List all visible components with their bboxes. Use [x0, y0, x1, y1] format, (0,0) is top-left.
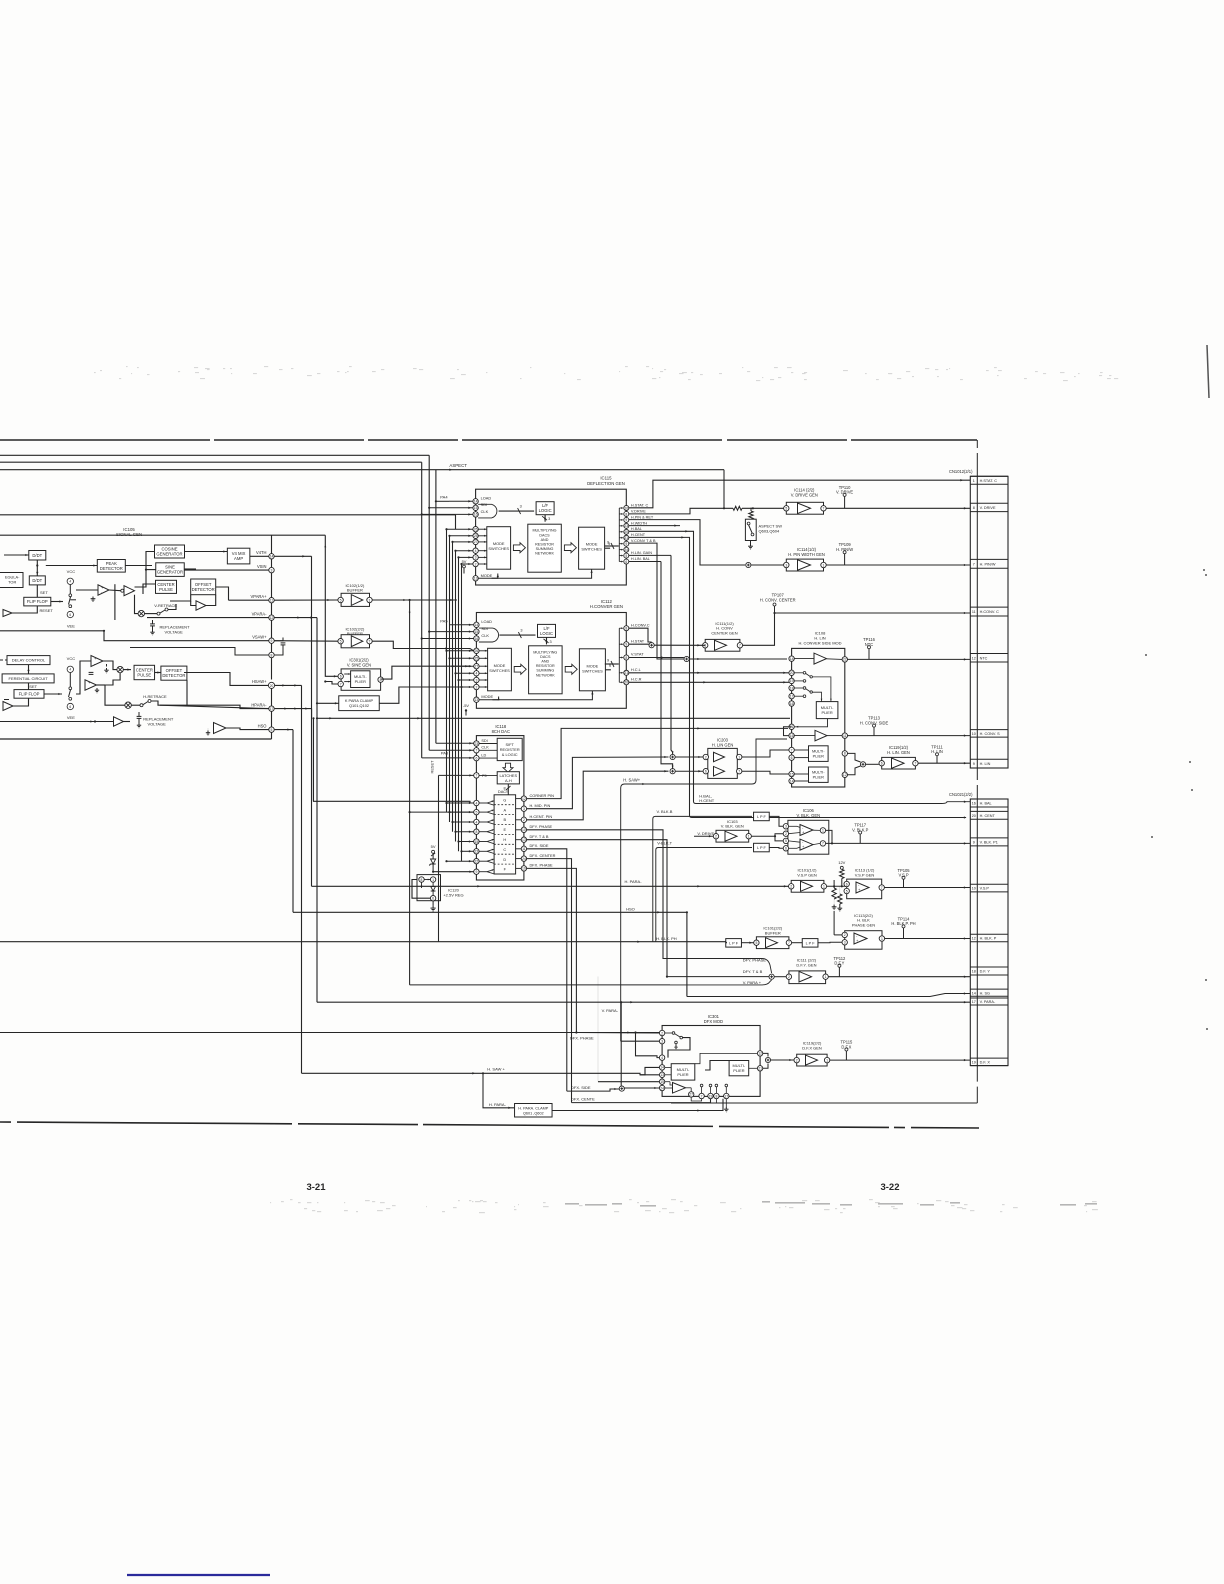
svg-text:VCC: VCC	[67, 569, 76, 574]
svg-text:C: C	[503, 847, 506, 852]
svg-text:2: 2	[788, 975, 790, 979]
svg-text:4: 4	[69, 580, 71, 584]
svg-text:8: 8	[625, 627, 627, 631]
svg-text:V4TH: V4TH	[256, 550, 267, 555]
block SINE GENERATOR	[156, 563, 185, 577]
svg-text:DACS: DACS	[540, 655, 551, 659]
svg-text:15: 15	[475, 840, 479, 844]
IC112 right pins H.CONV.C..H.C.R	[624, 626, 629, 631]
svg-text:4: 4	[475, 672, 477, 676]
svg-text:H.STAT: H.STAT	[631, 638, 645, 643]
svg-text:13: 13	[522, 838, 526, 842]
svg-text:5: 5	[846, 889, 848, 893]
svg-text:H. SAW+: H. SAW+	[623, 778, 640, 783]
svg-text:DETECTOR: DETECTOR	[192, 587, 215, 592]
svg-text:7: 7	[881, 886, 883, 890]
svg-text:RESISTOR: RESISTOR	[535, 543, 554, 547]
svg-text:5: 5	[755, 941, 757, 945]
svg-text:7: 7	[973, 562, 975, 566]
svg-text:1: 1	[825, 975, 827, 979]
svg-text:19: 19	[972, 1060, 976, 1064]
block CENTER PULSE H	[134, 665, 155, 679]
svg-text:6: 6	[705, 770, 707, 774]
svg-text:DFX. PHASE: DFX. PHASE	[570, 1036, 594, 1041]
svg-text:25: 25	[475, 657, 479, 661]
svg-text:GENERATOR: GENERATOR	[157, 570, 183, 575]
svg-text:1: 1	[738, 755, 740, 759]
svg-text:MODE: MODE	[481, 694, 493, 699]
svg-text:SDI: SDI	[481, 739, 487, 743]
summing node V.STAT	[684, 656, 689, 661]
svg-text:6: 6	[432, 897, 434, 901]
svg-text:BUFFER: BUFFER	[347, 588, 363, 593]
svg-text:RESET: RESET	[40, 608, 54, 613]
block MULTIPLIER IC301 right	[729, 1061, 749, 1076]
svg-text:Q603,Q604: Q603,Q604	[759, 529, 780, 534]
svg-text:3: 3	[475, 556, 477, 560]
svg-text:HSAW+: HSAW+	[252, 679, 267, 684]
svg-text:LOGIC: LOGIC	[539, 508, 552, 513]
svg-text:14: 14	[790, 779, 794, 783]
svg-text:L P F: L P F	[757, 815, 767, 819]
svg-text:12: 12	[972, 656, 976, 660]
svg-text:7: 7	[823, 507, 825, 511]
svg-text:A-H: A-H	[505, 778, 512, 783]
svg-text:22: 22	[843, 658, 847, 662]
svg-text:11: 11	[522, 847, 526, 851]
svg-text:PA4: PA4	[440, 495, 448, 500]
svg-text:11: 11	[270, 599, 274, 603]
svg-text:H. BLK. P: H. BLK. P	[980, 937, 997, 941]
wire long y718	[317, 717, 790, 719]
block LPF H.BLK 1	[726, 939, 742, 948]
svg-text:V. PARA +: V. PARA +	[743, 980, 762, 985]
wire V.PARA+	[410, 984, 670, 986]
svg-text:E: E	[503, 827, 506, 832]
svg-text:20: 20	[790, 671, 794, 675]
block LPF V.BLK.B	[754, 812, 770, 821]
svg-text:9: 9	[475, 870, 477, 874]
svg-text:AND: AND	[541, 660, 549, 664]
svg-text:D.F. X: D.F. X	[980, 1060, 991, 1064]
svg-text:21: 21	[624, 536, 628, 540]
svg-text:12: 12	[972, 937, 976, 941]
svg-text:7: 7	[788, 941, 790, 945]
svg-text:8: 8	[625, 512, 627, 516]
svg-text:7: 7	[369, 640, 371, 644]
svg-text:16: 16	[475, 637, 479, 641]
svg-text:CLK: CLK	[481, 509, 489, 514]
svg-text:H. LIN: H. LIN	[980, 762, 991, 766]
summing node D.F.Y	[769, 974, 774, 979]
wire mode bus verticals	[446, 529, 448, 812]
page edge artifact	[1207, 345, 1209, 398]
svg-text:CORNER PIN: CORNER PIN	[530, 793, 555, 798]
svg-text:7: 7	[822, 842, 824, 846]
wire HSO to H.SG	[293, 911, 687, 913]
svg-text:6: 6	[69, 613, 71, 617]
svg-text:PHASE GEN: PHASE GEN	[852, 922, 875, 927]
IC118 DAC output pins CORNER PIN..DFX.PHASE	[516, 798, 522, 800]
svg-text:L P F: L P F	[757, 846, 767, 850]
svg-text:H.BAL: H.BAL	[631, 527, 642, 531]
block IC112 H.CONVER GEN	[476, 613, 626, 709]
block OFFSET DETECTOR V	[191, 579, 216, 595]
svg-text:PULSE: PULSE	[137, 673, 151, 678]
svg-text:HSO: HSO	[258, 723, 267, 728]
block V4 MIX AMP	[227, 548, 250, 564]
svg-text:+2.5V REG: +2.5V REG	[443, 893, 463, 898]
block MULTIPLIER IC108 mid	[809, 746, 829, 762]
svg-text:6: 6	[69, 705, 71, 709]
svg-text:H. CONV. CENTER: H. CONV. CENTER	[760, 597, 796, 602]
svg-text:17: 17	[972, 1000, 976, 1004]
svg-text:LOAD: LOAD	[481, 496, 492, 501]
block MODE SWITCHES in IC112	[488, 648, 512, 691]
svg-text:MULTIPLYING: MULTIPLYING	[532, 529, 556, 533]
svg-text:LD: LD	[481, 754, 486, 758]
svg-text:A: A	[503, 807, 506, 812]
svg-text:4: 4	[69, 668, 71, 672]
block MULTIPLIER IC301 left	[671, 1064, 695, 1080]
svg-text:1: 1	[826, 1058, 828, 1062]
svg-text:3: 3	[661, 1040, 663, 1044]
svg-text:VCC: VCC	[67, 656, 76, 661]
block MULTIPLIER IC108 low	[809, 767, 829, 782]
svg-text:H. BLK. PH: H. BLK. PH	[656, 936, 677, 941]
svg-text:D/DT: D/DT	[32, 553, 42, 558]
svg-text:FLIP FLOP: FLIP FLOP	[27, 599, 48, 604]
svg-text:9: 9	[973, 762, 975, 766]
svg-text:16: 16	[972, 802, 976, 806]
svg-text:VEE: VEE	[67, 623, 75, 628]
svg-text:V. PARA-: V. PARA-	[980, 1000, 996, 1004]
svg-text:12: 12	[758, 1052, 762, 1056]
svg-text:2: 2	[475, 562, 477, 566]
svg-text:8: 8	[973, 506, 975, 510]
svg-text:H. CENT: H. CENT	[980, 814, 996, 818]
svg-text:14: 14	[790, 657, 794, 661]
svg-text:V-BLK.T: V-BLK.T	[657, 840, 672, 845]
svg-text:DFX. SIDE: DFX. SIDE	[571, 1085, 591, 1090]
ground IC120	[432, 906, 434, 908]
op-amp H1	[91, 656, 103, 667]
svg-text:D/DT: D/DT	[32, 578, 42, 583]
block COSINE GENERATOR	[155, 545, 185, 558]
svg-text:H.C.L: H.C.L	[631, 667, 642, 672]
svg-text:PLIER: PLIER	[813, 754, 824, 759]
svg-text:CLK: CLK	[481, 633, 489, 638]
block PEAK DETECTOR	[97, 560, 125, 573]
block CENTER PULSE V	[156, 580, 177, 593]
block SHIFT REGISTER & LOGIC	[497, 738, 522, 760]
summing nodes IC203 inputs	[670, 754, 675, 759]
svg-text:SET: SET	[29, 684, 37, 689]
svg-text:V. DRIVE GEN: V. DRIVE GEN	[791, 493, 818, 498]
block L/F LOGIC of IC112	[538, 624, 556, 637]
block MODE SWITCHES in IC115	[487, 527, 511, 570]
svg-text:5: 5	[785, 507, 787, 511]
svg-text:5: 5	[271, 728, 273, 732]
svg-text:H: H	[503, 837, 506, 842]
svg-text:24: 24	[660, 1086, 664, 1090]
svg-text:SET: SET	[40, 590, 48, 595]
svg-text:12V: 12V	[838, 860, 845, 865]
svg-text:V. BLK.B: V. BLK.B	[657, 809, 673, 814]
svg-text:PULSE: PULSE	[159, 587, 173, 592]
svg-text:20: 20	[270, 684, 274, 688]
svg-text:9: 9	[625, 518, 627, 522]
svg-text:5V: 5V	[431, 844, 436, 849]
svg-text:P5: P5	[482, 774, 487, 778]
svg-text:4: 4	[475, 549, 477, 553]
block LPF V.BLK.T	[754, 843, 770, 852]
svg-text:PA5: PA5	[440, 619, 448, 624]
svg-text:8: 8	[380, 678, 382, 682]
summing node D.F.X	[765, 1057, 770, 1062]
svg-text:10: 10	[972, 887, 976, 891]
svg-text:CN1012(2/1): CN1012(2/1)	[949, 469, 973, 474]
wire H.STAT.C	[629, 480, 970, 508]
svg-text:SIGNAL GEN: SIGNAL GEN	[116, 532, 142, 537]
svg-text:DFY. PHASE: DFY. PHASE	[530, 824, 553, 829]
svg-text:4: 4	[475, 820, 477, 824]
svg-text:MULTIPLYING: MULTIPLYING	[533, 650, 557, 654]
svg-text:PA3: PA3	[441, 751, 449, 756]
svg-text:3: 3	[550, 640, 552, 644]
svg-text:CENTER GEN: CENTER GEN	[711, 630, 737, 635]
bus wire top 2	[0, 461, 422, 463]
svg-text:GENERATOR: GENERATOR	[156, 552, 182, 557]
svg-text:2: 2	[523, 818, 525, 822]
svg-text:SWITCHES: SWITCHES	[489, 668, 510, 673]
summing node H.LIN	[860, 762, 865, 767]
wire ASPECT	[0, 469, 724, 471]
block D/DT 1	[29, 551, 46, 561]
svg-text:BUFFER: BUFFER	[765, 930, 781, 935]
svg-text:8: 8	[844, 752, 846, 756]
svg-text:20: 20	[624, 530, 628, 534]
svg-text:13: 13	[475, 698, 479, 702]
svg-text:7: 7	[791, 748, 793, 752]
svg-text:SWITCHES: SWITCHES	[582, 668, 603, 673]
svg-text:H. PARA-: H. PARA-	[489, 1102, 507, 1107]
svg-text:2: 2	[785, 832, 787, 836]
svg-text:1: 1	[823, 885, 825, 889]
svg-text:VOLTAGE: VOLTAGE	[165, 630, 184, 635]
svg-text:24: 24	[624, 548, 628, 552]
svg-text:SWITCHES: SWITCHES	[581, 547, 602, 552]
svg-text:PLIER: PLIER	[733, 1068, 744, 1073]
svg-text:2: 2	[661, 1031, 663, 1035]
svg-text:H. LIN. GEN: H. LIN. GEN	[887, 750, 910, 755]
svg-text:H. CONV. S: H. CONV. S	[980, 732, 1001, 736]
svg-text:D.F.X GEN: D.F.X GEN	[802, 1045, 822, 1050]
IC115 right pins H.STAT.C..H.LIN.BAL	[624, 506, 629, 511]
svg-text:PLIER: PLIER	[677, 1072, 688, 1077]
block H.PARA CLAMP Q601,Q602	[515, 1104, 553, 1118]
svg-text:ASPECT: ASPECT	[449, 463, 467, 468]
svg-text:15: 15	[475, 630, 479, 634]
svg-text:DETECTOR: DETECTOR	[100, 566, 123, 571]
svg-text:MODE: MODE	[481, 573, 493, 578]
svg-text:8: 8	[475, 830, 477, 834]
block MODE SWITCHES out IC112	[579, 649, 605, 691]
svg-text:13: 13	[474, 577, 478, 581]
svg-text:5: 5	[785, 839, 787, 843]
svg-text:1: 1	[823, 563, 825, 567]
svg-text:H.CONV. C: H.CONV. C	[980, 610, 1000, 614]
svg-text:20: 20	[624, 681, 628, 685]
svg-text:V.STAT: V.STAT	[631, 652, 644, 657]
svg-text:9: 9	[625, 542, 627, 546]
svg-text:3: 3	[785, 563, 787, 567]
svg-text:13: 13	[660, 1073, 664, 1077]
svg-text:V. BLK. P1: V. BLK. P1	[980, 841, 998, 845]
net RESET	[429, 760, 434, 774]
svg-text:SUMMING: SUMMING	[536, 547, 554, 551]
svg-text:DFX. PHASE: DFX. PHASE	[530, 863, 554, 868]
svg-text:10: 10	[624, 506, 628, 510]
svg-text:DACS: DACS	[539, 533, 550, 537]
svg-text:14: 14	[270, 555, 274, 559]
bus wire top 1	[0, 454, 429, 456]
svg-text:H.CONVER GEN: H.CONVER GEN	[590, 604, 623, 609]
block LATCHES A-H	[497, 772, 519, 784]
svg-text:B: B	[503, 817, 506, 822]
svg-text:8: 8	[421, 878, 423, 882]
svg-text:H. LIN GEN: H. LIN GEN	[712, 742, 734, 747]
svg-text:RESISTOR: RESISTOR	[536, 664, 555, 668]
svg-text:L P F: L P F	[806, 941, 816, 945]
svg-text:15: 15	[474, 506, 478, 510]
svg-text:HPARA-: HPARA-	[251, 702, 267, 707]
svg-text:2: 2	[475, 685, 477, 689]
svg-text:5: 5	[625, 554, 627, 558]
svg-text:H.PIN & RET: H.PIN & RET	[631, 515, 654, 519]
svg-text:CLK: CLK	[481, 746, 489, 750]
svg-text:18: 18	[790, 686, 794, 690]
wire H.BAL / H.CENT	[629, 531, 694, 801]
svg-text:H.STAT. C: H.STAT. C	[631, 503, 649, 507]
svg-text:L P F: L P F	[729, 941, 739, 945]
svg-text:6: 6	[791, 756, 793, 760]
svg-text:1: 1	[369, 598, 371, 602]
summing node DFX.SIDE	[619, 1086, 624, 1091]
svg-text:V. BLK. GEN: V. BLK. GEN	[797, 813, 821, 818]
svg-text:VPARA-: VPARA-	[252, 611, 268, 616]
svg-text:6: 6	[625, 560, 627, 564]
svg-text:19: 19	[709, 1094, 713, 1098]
svg-text:G: G	[503, 797, 506, 802]
svg-text:6: 6	[475, 756, 477, 760]
svg-text:8: 8	[715, 1094, 717, 1098]
svg-text:VEE: VEE	[67, 715, 75, 720]
svg-text:9: 9	[973, 841, 975, 845]
scan noise bands	[94, 366, 1118, 1213]
svg-text:V.DRIVE: V.DRIVE	[631, 509, 646, 513]
sheet border right	[976, 440, 978, 476]
block D/DT 2	[29, 576, 45, 585]
block DELAY CONTROL	[7, 656, 50, 665]
svg-text:20: 20	[972, 814, 976, 818]
svg-text:D: D	[503, 857, 506, 862]
svg-text:23: 23	[475, 742, 479, 746]
svg-text:17: 17	[724, 1094, 728, 1098]
block OFFSET DETECTOR H	[161, 666, 187, 680]
block MODE SWITCHES out IC115	[579, 527, 605, 569]
svg-text:24: 24	[522, 857, 526, 861]
svg-text:5V: 5V	[462, 559, 467, 564]
svg-text:V.S.P GEN: V.S.P GEN	[855, 872, 875, 877]
block K PARA CLAMP Q101,Q102	[339, 696, 380, 711]
svg-text:7: 7	[739, 644, 741, 648]
svg-text:7: 7	[738, 770, 740, 774]
svg-text:1: 1	[822, 829, 824, 833]
svg-text:23: 23	[475, 850, 479, 854]
svg-text:H. CONVER SIDE MOD: H. CONVER SIDE MOD	[798, 640, 841, 645]
svg-text:18: 18	[972, 970, 976, 974]
svg-text:FLIP FLOP: FLIP FLOP	[19, 691, 40, 696]
svg-text:4: 4	[661, 1056, 663, 1060]
svg-text:V-RETRACE: V-RETRACE	[154, 603, 177, 608]
svg-text:1: 1	[432, 878, 434, 882]
svg-text:17: 17	[270, 707, 274, 711]
svg-text:PLIER: PLIER	[355, 679, 366, 684]
svg-text:11: 11	[843, 734, 847, 738]
svg-text:14: 14	[475, 623, 479, 627]
summing node H.CONV	[649, 643, 654, 648]
svg-text:2: 2	[715, 835, 717, 839]
svg-text:3-22: 3-22	[880, 1182, 899, 1193]
svg-text:7: 7	[340, 682, 342, 686]
wire H.SAW+ vertical	[301, 685, 303, 1073]
svg-text:LOAD: LOAD	[481, 619, 492, 624]
svg-text:1: 1	[748, 835, 750, 839]
svg-text:27: 27	[689, 1093, 693, 1097]
svg-text:12: 12	[270, 616, 274, 620]
svg-text:F: F	[504, 867, 507, 872]
svg-text:H.LIN. GAIN: H.LIN. GAIN	[631, 551, 652, 555]
svg-text:& LOGIC: & LOGIC	[502, 752, 518, 757]
svg-text:NETWORK: NETWORK	[536, 673, 555, 677]
svg-text:V. DRIVE: V. DRIVE	[980, 506, 996, 510]
wire V.DRIVE	[629, 508, 733, 514]
sheet inner bottom line	[671, 1102, 977, 1104]
block REGULATOR (cut)	[0, 573, 23, 588]
block IC115 DEFLECTION GEN	[476, 489, 627, 585]
svg-text:TOR: TOR	[8, 580, 16, 585]
IC118 DAC input pins	[474, 800, 479, 805]
svg-text:23: 23	[624, 524, 628, 528]
svg-text:2: 2	[705, 755, 707, 759]
svg-text:Q601 ,Q602: Q601 ,Q602	[523, 1111, 544, 1115]
svg-text:7: 7	[475, 774, 477, 778]
svg-text:3: 3	[785, 825, 787, 829]
resistor V.DRIVE	[733, 506, 742, 510]
svg-text:DEFLECTION GEN: DEFLECTION GEN	[587, 481, 625, 486]
svg-text:PLIER: PLIER	[813, 775, 824, 780]
svg-text:RESET: RESET	[429, 760, 434, 774]
svg-text:15: 15	[660, 1080, 664, 1084]
svg-text:27: 27	[475, 665, 479, 669]
svg-text:H. PIN/W: H. PIN/W	[980, 562, 996, 566]
svg-text:CN1021(2/2): CN1021(2/2)	[949, 792, 973, 797]
pin 13 MODE of IC115	[473, 576, 478, 581]
svg-text:VOLTAGE: VOLTAGE	[148, 722, 167, 727]
svg-text:VPARA+: VPARA+	[251, 594, 268, 599]
svg-text:V. SINE GEN: V. SINE GEN	[347, 662, 371, 667]
